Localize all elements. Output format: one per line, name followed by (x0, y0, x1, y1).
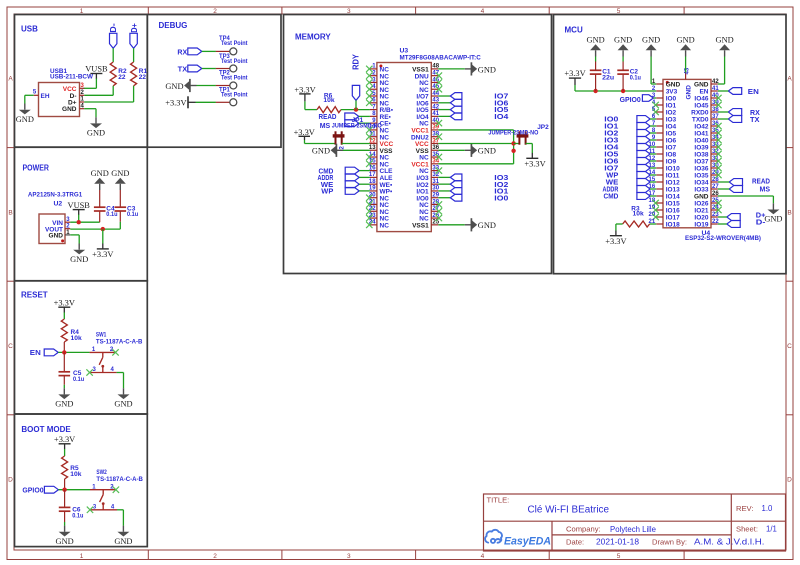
svg-text:U2: U2 (54, 200, 63, 207)
wire U4 pin26 GND to ground (718, 195, 774, 197)
ground above C4 (99, 184, 101, 190)
no-connect X U3 pin 6 (366, 100, 372, 106)
svg-text:IO11: IO11 (666, 173, 680, 180)
svg-text:19: 19 (369, 186, 376, 192)
wire SW1 pin4 to ground (117, 372, 124, 374)
U3 pin 43 I/O6 (431, 102, 438, 104)
wire RX flag to U4 RXD0 (718, 111, 729, 113)
svg-text:RDY: RDY (352, 53, 361, 70)
U4 pin 42 GND (711, 83, 718, 85)
U4 pin 8 IO5 (656, 132, 663, 134)
svg-text:EN: EN (699, 89, 708, 96)
svg-text:GND: GND (111, 169, 129, 178)
port flag IO6 (MEMORY) (450, 99, 462, 106)
wire to +3.3V flag (102, 229, 104, 244)
svg-text:VCC1: VCC1 (411, 128, 429, 135)
U4 pin 29 IO35 (711, 174, 718, 176)
U3 pin 48 VSS1 (431, 68, 438, 70)
svg-text:GND: GND (694, 194, 709, 201)
U3 pin 21 NC (370, 204, 377, 206)
wire CMD to U3 CLE (359, 170, 370, 172)
U3 pin 46 NC (431, 81, 438, 83)
svg-text:USB: USB (21, 25, 38, 34)
svg-text:2021-01-18: 2021-01-18 (596, 538, 639, 547)
ground below C5 (63, 388, 65, 394)
wire R4 to EN node (63, 342, 65, 352)
svg-text:C: C (8, 343, 13, 350)
U3 pin 32 I/O3 (431, 176, 438, 178)
U3 pin 5 NC (370, 95, 377, 97)
U3 pin 30 I/O1 (431, 190, 438, 192)
svg-text:NC: NC (419, 168, 429, 175)
ground above U4 pin1 wire (650, 50, 652, 56)
svg-text:IO4: IO4 (666, 124, 677, 131)
svg-text:GND: GND (642, 36, 660, 45)
power flag +3.3V (MCU R3) (610, 235, 622, 237)
junction VCC node upper (511, 141, 515, 145)
ground flag (DEBUG) (190, 85, 197, 87)
U3 pin 10 NC (370, 129, 377, 131)
U3 pin 39 VCC1 (431, 129, 438, 131)
svg-text:TXD0: TXD0 (692, 117, 709, 124)
svg-text:REV:: REV: (736, 504, 753, 513)
svg-text:12: 12 (369, 138, 376, 144)
svg-text:B: B (8, 209, 12, 216)
U4 pin 11 IO8 (656, 153, 663, 155)
U4 pin 20 IO17 (656, 216, 663, 218)
no-connect X U3 pin 45 (436, 86, 442, 92)
no-connect X U4 pin 39 (715, 102, 721, 108)
no-connect X U4 pin 33 (715, 144, 721, 150)
svg-text:USB-211-BCW: USB-211-BCW (50, 73, 94, 80)
svg-text:IO1: IO1 (666, 103, 677, 110)
svg-text:2: 2 (213, 553, 217, 560)
U3 pin 25 VSS1 (431, 224, 438, 226)
U2 pin 3 VIN (65, 221, 70, 223)
U3 pin 29 I/O0 (431, 197, 438, 199)
capacitor C4 (99, 211, 101, 222)
ground below SW2 (122, 526, 124, 532)
svg-text:IO0: IO0 (494, 195, 508, 202)
svg-text:MT29F8G08ABACAWP-IT:C: MT29F8G08ABACAWP-IT:C (400, 55, 481, 62)
svg-text:Polytech Lille: Polytech Lille (610, 525, 656, 534)
svg-text:11: 11 (369, 132, 376, 138)
no-connect X U3 pin 21 (366, 201, 372, 207)
svg-text:NC: NC (419, 202, 429, 209)
wire WP flag to U4 pin 14 (650, 174, 656, 176)
U4 pin 22 IO19 (711, 223, 718, 225)
U3 pin 33 NC (431, 170, 438, 172)
no-connect X U4 pin 20 (652, 214, 658, 220)
wire R6 to U3 R/B# (341, 109, 370, 111)
svg-text:IO33: IO33 (694, 187, 708, 194)
wire IO3 flag to U4 pin 9 (650, 139, 656, 141)
wire EN flag to U4 (718, 90, 729, 92)
port flag IO7 (MEMORY) (450, 93, 462, 100)
U3 pin 12 VCC (370, 142, 377, 144)
svg-text:VUSB: VUSB (68, 201, 91, 210)
svg-text:+3.3V: +3.3V (165, 99, 186, 108)
svg-text:JUMPER-2SMD-NO: JUMPER-2SMD-NO (332, 123, 382, 130)
wire D+ flag to U4 IO20 (718, 216, 727, 218)
svg-text:IO20: IO20 (694, 215, 708, 222)
no-connect X U3 pin 4 (366, 86, 372, 92)
svg-text:NC: NC (419, 216, 429, 223)
svg-text:GND: GND (91, 169, 109, 178)
svg-text:I/O6: I/O6 (416, 100, 429, 107)
svg-text:IO4: IO4 (494, 114, 508, 121)
wire C6 to ground (64, 522, 66, 526)
port flag TX (MCU) (728, 116, 741, 123)
svg-text:A: A (8, 76, 13, 83)
svg-text:BOOT MODE: BOOT MODE (21, 425, 71, 434)
wire +3.3V to R6 (304, 101, 306, 109)
svg-text:TS-1187A-C-A-B: TS-1187A-C-A-B (96, 338, 143, 345)
svg-text:B: B (787, 209, 791, 216)
U3 pin 6 NC (370, 102, 377, 104)
U3 pin 26 NC (431, 217, 438, 219)
ground below SW1 (123, 388, 125, 394)
U4 pin 34 IO40 (711, 139, 718, 141)
U2 pin 1 GND (65, 234, 70, 236)
wire D- flag to U4 IO19 (718, 223, 727, 225)
wire U3 I/O1 to flag (438, 190, 450, 192)
svg-text:I/O0: I/O0 (416, 195, 429, 202)
junction RDY node (354, 107, 358, 111)
svg-text:D-: D- (756, 219, 766, 226)
U4 pin 32 IO38 (711, 153, 718, 155)
svg-text:RESET: RESET (21, 290, 48, 299)
ground below EH (24, 104, 26, 110)
svg-text:IO38: IO38 (694, 152, 708, 159)
U4 pin 23 IO20 (711, 216, 718, 218)
wire IO2 flag to U4 pin 8 (650, 132, 656, 134)
capacitor C5 (63, 352, 65, 371)
svg-text:Test Point: Test Point (221, 75, 248, 82)
U4 pin 37 TXD0 (711, 118, 718, 120)
svg-text:IO17: IO17 (666, 215, 680, 222)
junction EN node (62, 350, 66, 354)
wire WP to U3 WP# (359, 190, 370, 192)
svg-text:I/O1: I/O1 (416, 189, 429, 196)
resistor R2 (110, 62, 116, 86)
svg-text:IO1: IO1 (604, 124, 618, 131)
svg-text:GPIO0: GPIO0 (22, 488, 43, 495)
port flag IO4 (MEMORY) (450, 113, 462, 120)
svg-text:GND: GND (478, 221, 496, 230)
section box BOOT MODE (15, 414, 148, 547)
svg-text:IO7: IO7 (604, 166, 618, 173)
svg-text:IO7: IO7 (666, 145, 677, 152)
svg-text:IO40: IO40 (694, 138, 708, 145)
junction GPIO0 node (62, 488, 66, 492)
wire D- flag to R2 (112, 48, 114, 62)
svg-text:I/O3: I/O3 (416, 175, 429, 182)
no-connect X U3 pin 2 (366, 72, 372, 78)
svg-text:GND: GND (694, 82, 709, 89)
svg-text:VSS: VSS (416, 148, 430, 155)
svg-text:10k: 10k (70, 471, 82, 478)
port flag IO5 (MEMORY) (450, 106, 462, 113)
svg-text:GND: GND (56, 537, 74, 546)
U4 pin 28 IO34 (711, 181, 718, 183)
wire ADDR flag to U4 pin 16 (650, 188, 656, 190)
U3 pin 22 NC (370, 210, 377, 212)
svg-text:GND: GND (114, 400, 132, 409)
port flag READ (MCU) (729, 179, 742, 186)
no-connect X U3 pin 3 (366, 79, 372, 85)
U1 pin 1 D+ (80, 101, 85, 103)
U4 pin 40 IO46 (711, 97, 718, 99)
ground above C3 (119, 184, 121, 190)
wire GPIO0 to U4 IO0 (653, 97, 656, 99)
no-connect X U4 pin 36 (715, 123, 721, 129)
svg-text:GND: GND (478, 65, 496, 74)
U4 pin 25 IO26 (711, 202, 718, 204)
svg-text:IO36: IO36 (694, 166, 708, 173)
section box RESET (15, 281, 148, 414)
svg-text:0.1u: 0.1u (630, 75, 641, 82)
svg-text:4: 4 (481, 553, 485, 560)
resistor R6 (317, 107, 341, 113)
svg-text:Sheet:: Sheet: (736, 525, 758, 534)
wire U1 GND pin to ground (84, 108, 96, 110)
U4 pin 4 IO1 (656, 104, 663, 106)
svg-text:GND: GND (62, 106, 77, 113)
no-connect X U4 pin 32 (715, 151, 721, 157)
no-connect X U3 pin 5 (366, 93, 372, 99)
svg-text:A: A (787, 76, 792, 83)
svg-text:+3.3V: +3.3V (54, 298, 75, 307)
wire WE to U3 WE# (359, 183, 370, 185)
ground below U2 (78, 244, 80, 250)
U4 pin 21 IO18 (656, 223, 663, 225)
U3 pin 36 VSS (431, 149, 438, 151)
wire +3.3V to R4 (63, 312, 65, 319)
U3 pin 16 CLE (370, 170, 377, 172)
svg-text:IO14: IO14 (666, 194, 680, 201)
U4 pin 33 IO39 (711, 146, 718, 148)
wire JP2 to +3.3V (526, 143, 533, 145)
U3 pin 41 I/O4 (431, 115, 438, 117)
ground above U4 pin43 (685, 57, 687, 73)
power flag +3.3V (MEMORY JP2) (526, 157, 538, 159)
svg-text:POWER: POWER (23, 163, 50, 172)
wire U3 I/O0 to flag (438, 197, 450, 199)
svg-text:IO16: IO16 (666, 208, 680, 215)
no-connect X U3 pin 14 (366, 154, 372, 160)
U4 pin 3 IO0 (656, 97, 663, 99)
svg-text:D: D (787, 477, 792, 484)
no-connect X U4 pin 24 (715, 207, 721, 213)
U4 pin 39 IO45 (711, 104, 718, 106)
svg-text:IO2: IO2 (666, 110, 677, 117)
U4 pin 35 IO41 (711, 132, 718, 134)
EasyEDA logo (485, 530, 502, 543)
wire ADDR to U3 ALE (359, 176, 370, 178)
wire +3.3V to TP1 (196, 101, 216, 103)
resistor R3 (650, 223, 657, 225)
no-connect X U3 pin 40 (436, 120, 442, 126)
wire D+ flag to R1 (133, 48, 135, 62)
wire +3.3V to JP1 (304, 140, 306, 144)
svg-text:WP: WP (321, 189, 333, 196)
U4 pin 43 GND (top) (685, 73, 687, 80)
no-connect X U4 pin 29 (715, 172, 721, 178)
U3 pin 20 NC (370, 197, 377, 199)
wire READ flag to U4 IO34 (718, 181, 729, 183)
U3 pin 13 VSS (370, 149, 377, 151)
ground below U1 (95, 117, 97, 123)
svg-text:IO8: IO8 (666, 152, 677, 159)
svg-text:22: 22 (118, 74, 126, 81)
wire U3 VCC1 pin34 to JP2 node (438, 163, 513, 165)
wire +3.3V to U4 3V3 (574, 85, 576, 91)
U1 pin 5 EH (34, 94, 39, 96)
svg-text:GND: GND (666, 82, 681, 89)
svg-text:1: 1 (80, 553, 84, 560)
svg-text:10k: 10k (71, 335, 83, 342)
svg-text:VCC1: VCC1 (411, 161, 429, 168)
svg-text:0.1u: 0.1u (72, 512, 83, 519)
svg-text:D: D (8, 477, 13, 484)
svg-text:GND: GND (165, 82, 183, 91)
svg-text:IO6: IO6 (604, 159, 618, 166)
port flag IO3 (MEMORY) (450, 174, 462, 181)
svg-text:D-: D- (109, 23, 118, 33)
wire U3 VCC pin37 to JP2 node (438, 142, 513, 144)
resistor R1 (131, 62, 137, 86)
svg-text:GND: GND (16, 115, 34, 124)
wire U3 VSS1 pin48 to ground (438, 68, 465, 70)
svg-text:Company:: Company: (566, 525, 601, 534)
no-connect X U4 pin 25 (715, 200, 721, 206)
svg-text:5: 5 (33, 89, 37, 95)
svg-text:IO46: IO46 (694, 96, 708, 103)
no-connect X U3 pin 22 (366, 208, 372, 214)
svg-text:I/O4: I/O4 (416, 114, 429, 121)
svg-text:NC: NC (380, 222, 390, 229)
no-connect X U3 pin 11 (366, 134, 372, 140)
U3 pin 47 DNU (431, 75, 438, 77)
U3 pin 18 WE# (370, 183, 377, 185)
ground flag (U3 pin25) (465, 224, 472, 226)
ground below C6 (64, 526, 66, 532)
capacitor C1 (595, 74, 597, 91)
no-connect X U3 pin 23 (366, 215, 372, 221)
ground at U4 pin26 (772, 203, 774, 209)
svg-text:GND: GND (49, 233, 64, 240)
svg-text:GND: GND (686, 85, 693, 100)
svg-text:I/O5: I/O5 (416, 107, 429, 114)
wire U3 I/O2 to flag (438, 183, 450, 185)
svg-text:2: 2 (340, 146, 346, 150)
svg-text:+3.3V: +3.3V (92, 250, 113, 259)
port flag MS (MCU) (729, 186, 742, 193)
svg-text:I/O2: I/O2 (416, 182, 429, 189)
U4 pin 6 IO3 (656, 118, 663, 120)
svg-text:D+: D+ (130, 23, 139, 33)
title block (484, 494, 786, 551)
no-connect X U3 pin 24 (366, 222, 372, 228)
no-connect X U4 pin 35 (715, 130, 721, 136)
U4 pin 24 IO21 (711, 209, 718, 211)
svg-text:17: 17 (369, 172, 376, 178)
svg-text:EasyEDA: EasyEDA (504, 536, 551, 548)
port flag RX (MCU) (728, 109, 741, 116)
svg-text:JP2: JP2 (537, 124, 549, 131)
junction VIN/VUSB (77, 220, 81, 224)
U3 pin 44 I/O7 (431, 95, 438, 97)
no-connect X U4 pin 4 (652, 102, 658, 108)
U4 pin 38 RXD0 (711, 111, 718, 113)
wire U1 EH to ground (25, 94, 34, 96)
svg-text:GND: GND (677, 36, 695, 45)
no-connect X U3 pin 47 (436, 72, 442, 78)
svg-text:IO9: IO9 (666, 159, 677, 166)
U1 pin 2 D- (80, 94, 85, 96)
wire RDY flag to node (355, 100, 357, 109)
svg-text:VCC: VCC (415, 141, 429, 148)
svg-text:IO34: IO34 (694, 180, 708, 187)
port flag D+ (MCU) (727, 214, 740, 221)
wire U4 pin42 GND to ground (718, 83, 725, 85)
svg-text:VSS1: VSS1 (412, 67, 429, 74)
wire CMD flag to U4 pin 17 (650, 195, 656, 197)
svg-text:IO42: IO42 (694, 124, 708, 131)
svg-text:IO26: IO26 (694, 201, 708, 208)
svg-text:RX: RX (177, 49, 187, 56)
svg-text:+3.3V: +3.3V (605, 237, 626, 246)
U4 pin 27 IO33 (711, 188, 718, 190)
ground above C2 (622, 50, 624, 56)
resistor R4 (61, 319, 67, 342)
svg-text:NC: NC (419, 80, 429, 87)
svg-text:MS: MS (760, 187, 771, 194)
svg-text:IO0: IO0 (604, 117, 618, 124)
svg-text:IO3: IO3 (604, 138, 618, 145)
svg-text:0.1u: 0.1u (73, 376, 84, 383)
U3 pin 34 VCC1 (431, 163, 438, 165)
power flag +3.3V (BOOT) (59, 443, 71, 445)
svg-text:READ: READ (319, 114, 337, 121)
svg-text:TITLE:: TITLE: (487, 495, 510, 504)
junction C1 (593, 89, 597, 93)
wire R5 to GPIO0 node (64, 479, 66, 490)
wire C5 to ground (63, 385, 65, 388)
section box POWER (15, 147, 148, 281)
U3 pin 4 NC (370, 88, 377, 90)
svg-text:22: 22 (139, 74, 147, 81)
svg-text:RX: RX (750, 110, 760, 117)
wire READ to U3 RE# (359, 115, 370, 117)
U1 pin 3 VCC (80, 87, 85, 89)
U3 pin 38 DNU2 (431, 136, 438, 138)
svg-text:TS-1187A-C-A-B: TS-1187A-C-A-B (96, 476, 143, 483)
ground flag (U3 pin48) (465, 68, 472, 70)
jumper JP2 JUMPER-2SMD-NO (518, 131, 520, 144)
power flag +3.3V (DEBUG) (187, 96, 189, 108)
no-connect X U3 pin 33 (436, 167, 442, 173)
svg-text:RXD0: RXD0 (691, 110, 709, 117)
capacitor C3 (119, 190, 121, 207)
svg-text:IO13: IO13 (666, 187, 680, 194)
U3 pin 17 ALE (370, 176, 377, 178)
U4 pin 1 GND (656, 83, 663, 85)
svg-text:10k: 10k (633, 211, 645, 218)
svg-text:GND: GND (587, 36, 605, 45)
svg-text:IO2: IO2 (604, 131, 618, 138)
